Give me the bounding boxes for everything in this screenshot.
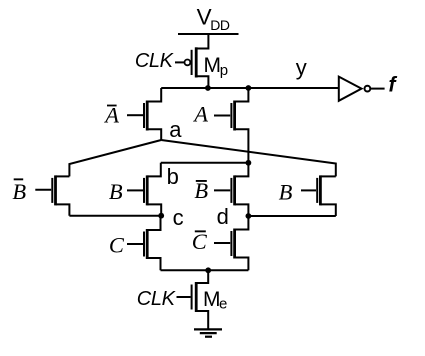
wire B far-right source to node d xyxy=(320,204,335,216)
svg-text:b: b xyxy=(167,164,179,189)
junction dot Mp/y xyxy=(205,85,211,91)
wire node a diagonal to far-left Bbar drain xyxy=(69,140,161,176)
svg-text:M: M xyxy=(203,288,221,311)
wire C drain to node c xyxy=(147,216,160,230)
wire node a diagonal to far-right B drain xyxy=(161,140,336,176)
svg-text:B: B xyxy=(12,179,26,204)
wire A source down to node b xyxy=(235,129,249,163)
label Mp xyxy=(204,54,229,79)
junction dot A/y xyxy=(246,85,252,91)
transistor Me xyxy=(177,282,197,312)
wire Cbar source to bottom rail xyxy=(235,258,249,271)
transistor C (row3 left) xyxy=(127,229,147,259)
transistor B mid-left (row2 col2) xyxy=(127,175,147,205)
wire VDD to Mp drain xyxy=(197,34,208,49)
node c rail xyxy=(69,215,161,217)
svg-text:CLK: CLK xyxy=(135,50,175,72)
node y rail xyxy=(161,87,338,89)
wire Mp source to node y xyxy=(197,76,208,88)
svg-text:DD: DD xyxy=(210,17,230,33)
svg-text:f: f xyxy=(389,74,398,97)
wire Me source to ground xyxy=(197,311,208,329)
svg-text:B: B xyxy=(279,179,293,204)
transistor B far-right (row2 col4) xyxy=(301,175,320,205)
transistor Bbar far-left (row2 col1) xyxy=(35,175,55,205)
inverter U1 xyxy=(339,77,385,101)
svg-text:A: A xyxy=(192,101,208,126)
power rail VDD xyxy=(178,33,239,35)
transistor A (row1 right) xyxy=(214,101,235,131)
wire B far-right drain lead xyxy=(320,175,335,177)
label Bbar (mid right) xyxy=(194,178,208,203)
ground xyxy=(194,329,222,336)
label VDD xyxy=(197,5,230,33)
svg-text:a: a xyxy=(169,117,182,142)
label Bbar (far left) xyxy=(12,178,26,204)
svg-text:c: c xyxy=(173,205,184,230)
junction dot c xyxy=(158,213,164,219)
wire bottom rail to Me drain xyxy=(197,270,208,283)
wire Bbar mid-right drain to node b xyxy=(235,163,249,177)
svg-text:e: e xyxy=(219,296,227,313)
wire B mid-left source to node c xyxy=(147,204,161,215)
bottom rail (Me drain net) xyxy=(161,269,249,271)
wire Abar source to node a xyxy=(147,129,161,140)
transistor Bbar mid-right (row2 col3) xyxy=(214,175,235,205)
svg-text:M: M xyxy=(204,54,222,77)
transistor Mp xyxy=(175,47,196,77)
wire Cbar drain to node d xyxy=(235,216,249,230)
wire Bbar far-left source to node c xyxy=(56,204,70,215)
node b rail xyxy=(161,162,249,164)
label Cbar xyxy=(192,229,208,254)
transistor Cbar (row3 right) xyxy=(214,229,235,259)
wire Bbar mid-right source to node d xyxy=(235,204,249,216)
junction dot d xyxy=(246,213,252,219)
transistor Abar (row1 left) xyxy=(127,101,147,131)
label Me xyxy=(203,288,227,313)
svg-text:B: B xyxy=(109,179,123,204)
wire Abar drain to y rail xyxy=(147,88,161,102)
svg-text:C: C xyxy=(109,232,125,257)
label Abar xyxy=(103,103,119,128)
svg-text:C: C xyxy=(192,229,208,254)
svg-text:d: d xyxy=(217,204,229,229)
node d rail xyxy=(248,215,335,217)
svg-text:y: y xyxy=(296,55,307,80)
wire Bbar far-left drain lead xyxy=(56,175,70,177)
wire B mid-left drain to node b xyxy=(147,163,161,177)
wire A drain to y rail xyxy=(235,88,249,102)
wire C source to bottom rail xyxy=(147,258,160,270)
svg-text:p: p xyxy=(220,62,228,79)
junction dot b xyxy=(246,160,252,166)
junction dot Me drain xyxy=(205,267,211,273)
svg-text:CLK: CLK xyxy=(137,288,177,310)
